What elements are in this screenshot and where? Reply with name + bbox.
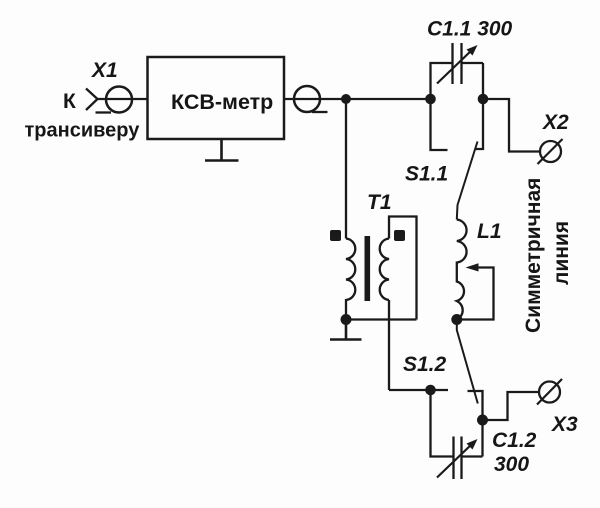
svg-text:линия: линия <box>550 221 573 285</box>
svg-text:X1: X1 <box>91 59 118 82</box>
svg-text:К: К <box>63 90 76 113</box>
svg-text:T1: T1 <box>367 191 392 214</box>
svg-text:S1.2: S1.2 <box>403 353 447 376</box>
svg-text:C1.2: C1.2 <box>492 429 537 452</box>
svg-text:Симметричная: Симметричная <box>522 178 545 333</box>
svg-text:300: 300 <box>494 453 529 476</box>
svg-text:X3: X3 <box>551 413 578 436</box>
svg-text:трансиверу: трансиверу <box>25 120 141 142</box>
svg-text:L1: L1 <box>477 220 502 243</box>
svg-text:КСВ-метр: КСВ-метр <box>171 90 273 114</box>
svg-text:S1.1: S1.1 <box>405 163 448 186</box>
svg-text:X2: X2 <box>542 111 569 134</box>
svg-text:C1.1 300: C1.1 300 <box>427 18 513 41</box>
